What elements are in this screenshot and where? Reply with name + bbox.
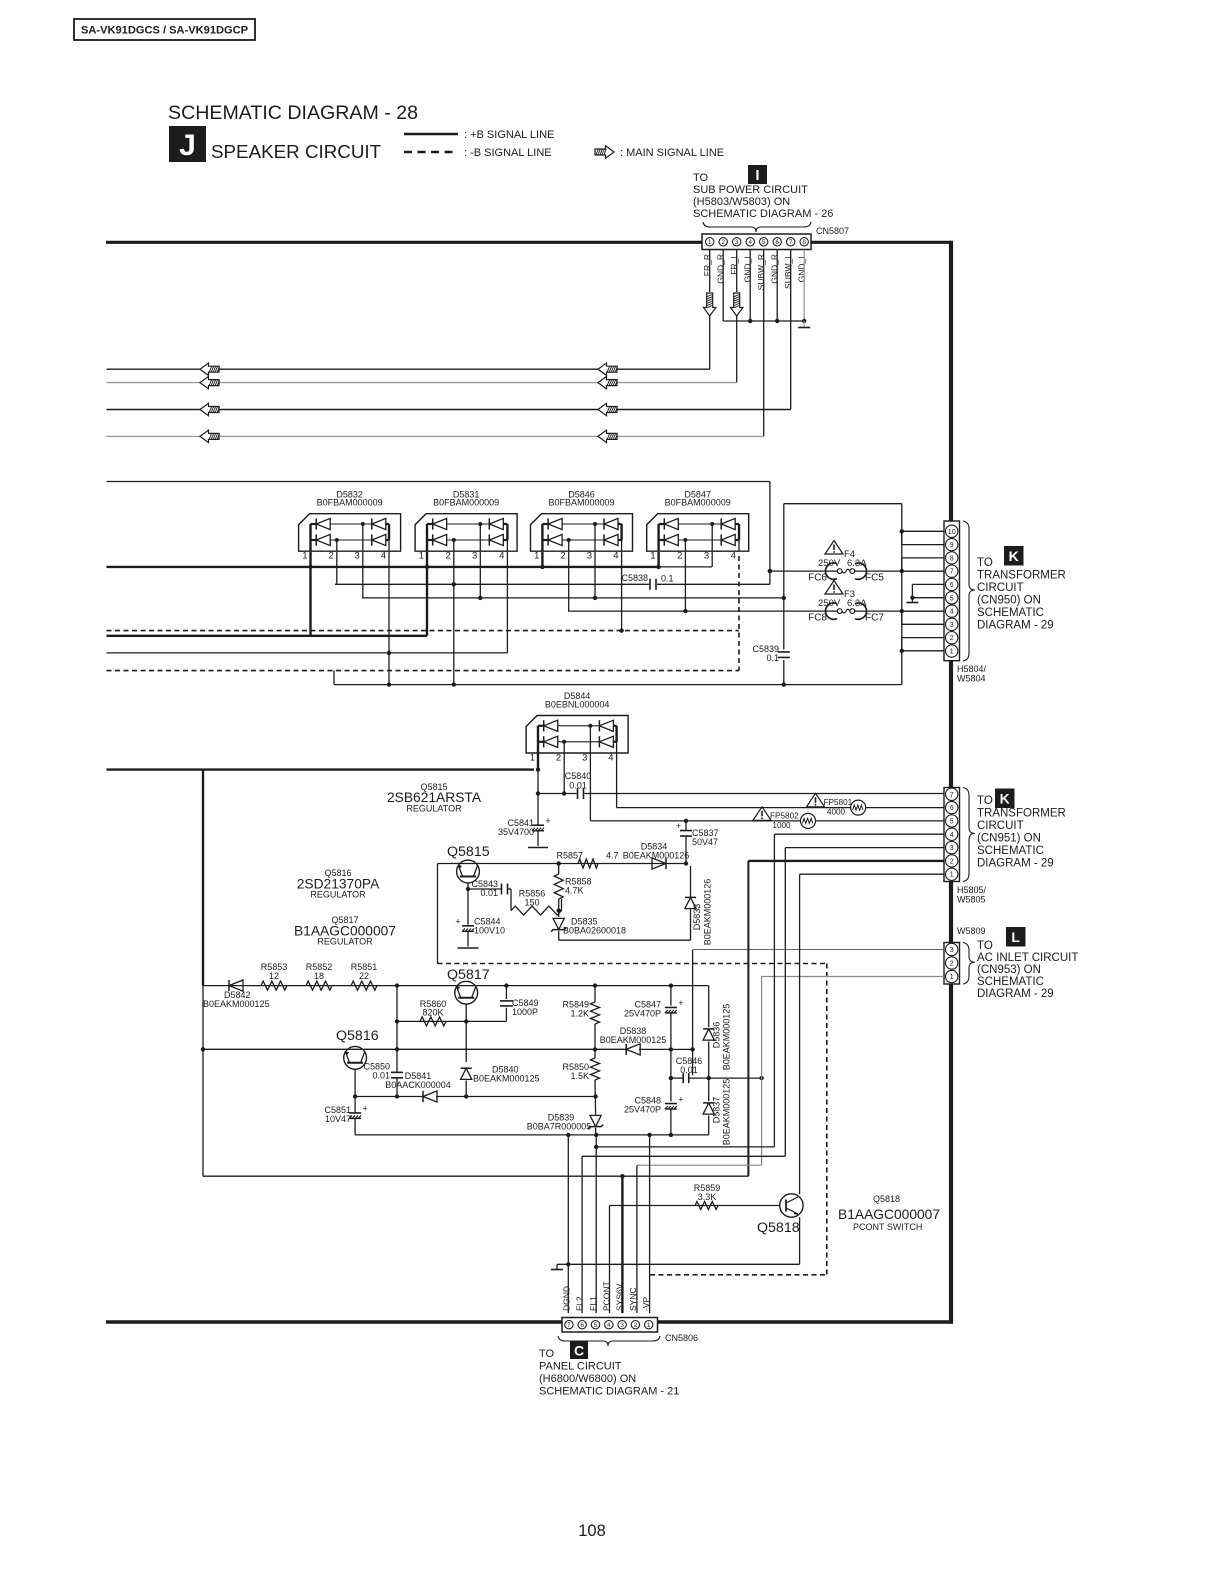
svg-text:Q5818: Q5818 <box>757 1220 800 1236</box>
svg-text:3.3K: 3.3K <box>698 1192 717 1202</box>
svg-text:B0FBAM000009: B0FBAM000009 <box>548 498 614 508</box>
svg-text:4: 4 <box>731 551 736 562</box>
svg-text:25V470P: 25V470P <box>624 1009 661 1019</box>
svg-text:W5809: W5809 <box>957 926 986 936</box>
svg-text:TO: TO <box>539 1348 555 1360</box>
svg-text:2: 2 <box>950 858 954 865</box>
svg-text:D5837: D5837 <box>712 1097 722 1124</box>
svg-text:SCHEMATIC DIAGRAM - 28: SCHEMATIC DIAGRAM - 28 <box>168 102 418 124</box>
svg-text:SPEAKER CIRCUIT: SPEAKER CIRCUIT <box>211 141 382 162</box>
svg-text:2: 2 <box>950 635 954 642</box>
svg-text:4: 4 <box>950 609 954 616</box>
svg-text:1000P: 1000P <box>512 1007 538 1017</box>
svg-text:TRANSFORMER: TRANSFORMER <box>977 808 1066 820</box>
svg-text:7: 7 <box>789 239 793 246</box>
svg-text:SCHEMATIC: SCHEMATIC <box>977 607 1044 619</box>
svg-text:50V47: 50V47 <box>692 837 718 847</box>
svg-text:5: 5 <box>594 1322 598 1329</box>
svg-text:2: 2 <box>677 551 682 562</box>
svg-text:FP5801: FP5801 <box>824 798 853 807</box>
svg-text:PCONT: PCONT <box>601 1281 611 1311</box>
svg-text:TO: TO <box>977 557 993 569</box>
svg-text:B0FBAM000009: B0FBAM000009 <box>433 498 499 508</box>
svg-text:FC5: FC5 <box>865 573 884 584</box>
svg-text:GND_L: GND_L <box>797 254 807 283</box>
svg-text:3: 3 <box>950 845 954 852</box>
svg-text:J: J <box>179 129 196 162</box>
svg-text:W5804: W5804 <box>957 674 986 684</box>
svg-text:FR_R: FR_R <box>702 254 712 276</box>
svg-text:1: 1 <box>647 1322 651 1329</box>
svg-text:Q5818: Q5818 <box>873 1194 900 1204</box>
svg-text:: +B SIGNAL LINE: : +B SIGNAL LINE <box>464 129 554 141</box>
svg-text:SUBW_L: SUBW_L <box>783 254 793 289</box>
svg-text:8: 8 <box>950 555 954 562</box>
svg-text:+: + <box>545 816 550 826</box>
svg-text:SCHEMATIC: SCHEMATIC <box>977 845 1044 857</box>
svg-text:C5840: C5840 <box>565 771 592 781</box>
svg-text:FP5802: FP5802 <box>770 811 799 820</box>
svg-text:35V4700: 35V4700 <box>498 827 534 837</box>
svg-text:6: 6 <box>950 582 954 589</box>
svg-text:0.1: 0.1 <box>766 653 779 663</box>
svg-text:SA-VK91DGCS / SA-VK91DGCP: SA-VK91DGCS / SA-VK91DGCP <box>81 25 249 37</box>
svg-text:GND_R: GND_R <box>770 254 780 284</box>
svg-text:FL2: FL2 <box>575 1296 585 1311</box>
svg-text:2: 2 <box>329 551 334 562</box>
svg-text:B0FBAM000009: B0FBAM000009 <box>317 498 383 508</box>
svg-text:SYNC: SYNC <box>628 1287 638 1311</box>
svg-text:2: 2 <box>950 961 954 968</box>
svg-text:REGULATOR: REGULATOR <box>406 804 462 814</box>
svg-text:4: 4 <box>381 551 386 562</box>
svg-text:: MAIN SIGNAL LINE: : MAIN SIGNAL LINE <box>620 147 724 159</box>
svg-text:TRANSFORMER: TRANSFORMER <box>977 570 1066 582</box>
svg-text:+: + <box>678 1094 683 1104</box>
svg-text:B0EAKM000126: B0EAKM000126 <box>703 879 713 946</box>
svg-text:Q5816: Q5816 <box>336 1028 379 1044</box>
svg-text:7: 7 <box>567 1322 571 1329</box>
svg-text:B0EAKM000125: B0EAKM000125 <box>473 1074 540 1084</box>
svg-text:4000: 4000 <box>827 808 846 817</box>
svg-text:B0EAKM000125: B0EAKM000125 <box>722 1079 732 1146</box>
svg-text:0.01: 0.01 <box>480 888 498 898</box>
svg-text:22: 22 <box>359 971 369 981</box>
svg-text:H5805/: H5805/ <box>957 885 987 895</box>
svg-text:L: L <box>1011 929 1020 945</box>
svg-text:3: 3 <box>472 551 477 562</box>
svg-text:GND_L: GND_L <box>743 254 753 283</box>
svg-text:K: K <box>1009 548 1019 564</box>
svg-text:10: 10 <box>948 529 956 536</box>
svg-text:K: K <box>1000 791 1010 807</box>
svg-text:4: 4 <box>950 832 954 839</box>
svg-text:4.7: 4.7 <box>606 851 619 861</box>
svg-text:18: 18 <box>314 971 324 981</box>
svg-text:DIAGRAM - 29: DIAGRAM - 29 <box>977 858 1054 870</box>
svg-text:DIAGRAM - 29: DIAGRAM - 29 <box>977 988 1054 1000</box>
svg-text:SYS6V: SYS6V <box>615 1283 625 1311</box>
svg-text:C5838: C5838 <box>621 573 648 583</box>
svg-text:B0EAKM000125: B0EAKM000125 <box>722 1004 732 1071</box>
svg-text:R5857: R5857 <box>556 851 583 861</box>
svg-text:4: 4 <box>748 239 752 246</box>
svg-text:4: 4 <box>499 551 504 562</box>
svg-text:1: 1 <box>530 753 535 764</box>
svg-text:D5836: D5836 <box>712 1022 722 1049</box>
svg-text:Q5817: Q5817 <box>447 967 490 983</box>
svg-text:(CN953) ON: (CN953) ON <box>977 964 1041 976</box>
svg-text:1: 1 <box>650 551 655 562</box>
svg-text:6: 6 <box>950 805 954 812</box>
svg-text:150: 150 <box>524 898 539 908</box>
svg-text:(CN950) ON: (CN950) ON <box>977 595 1041 607</box>
svg-text:9: 9 <box>950 542 954 549</box>
svg-text:B0EAKM000126: B0EAKM000126 <box>623 851 690 861</box>
svg-text:GND_R: GND_R <box>716 254 726 284</box>
svg-text:6: 6 <box>775 239 779 246</box>
svg-text:(H6800/W6800) ON: (H6800/W6800) ON <box>539 1373 636 1385</box>
svg-text:SCHEMATIC DIAGRAM - 26: SCHEMATIC DIAGRAM - 26 <box>693 208 833 220</box>
svg-text:(CN951) ON: (CN951) ON <box>977 833 1041 845</box>
svg-text:(H5803/W5803) ON: (H5803/W5803) ON <box>693 196 790 208</box>
svg-text:1: 1 <box>950 974 954 981</box>
svg-text:REGULATOR: REGULATOR <box>317 937 373 947</box>
svg-text:7: 7 <box>950 569 954 576</box>
svg-text:C: C <box>574 1343 584 1359</box>
svg-text:1: 1 <box>950 649 954 656</box>
svg-text:1000: 1000 <box>772 821 791 830</box>
svg-text:+: + <box>455 917 460 927</box>
svg-text:CN5807: CN5807 <box>816 226 849 236</box>
svg-text:SCHEMATIC DIAGRAM - 21: SCHEMATIC DIAGRAM - 21 <box>539 1386 679 1398</box>
svg-text:FC8: FC8 <box>808 613 827 624</box>
svg-text:: -B SIGNAL LINE: : -B SIGNAL LINE <box>464 147 552 159</box>
svg-text:REGULATOR: REGULATOR <box>310 890 366 900</box>
svg-text:100V10: 100V10 <box>474 926 505 936</box>
svg-text:3: 3 <box>355 551 360 562</box>
svg-text:10V47: 10V47 <box>325 1114 351 1124</box>
svg-text:2: 2 <box>446 551 451 562</box>
svg-text:-VP: -VP <box>641 1297 651 1312</box>
svg-text:820K: 820K <box>422 1008 443 1018</box>
svg-text:B0EAKM000125: B0EAKM000125 <box>203 999 270 1009</box>
svg-text:3: 3 <box>620 1322 624 1329</box>
svg-text:DGND: DGND <box>561 1286 571 1311</box>
svg-text:FC7: FC7 <box>865 613 884 624</box>
svg-text:8: 8 <box>802 239 806 246</box>
svg-text:FR_L: FR_L <box>729 254 739 275</box>
svg-text:TO: TO <box>693 172 709 184</box>
svg-text:PCONT SWITCH: PCONT SWITCH <box>853 1222 922 1232</box>
svg-text:4: 4 <box>607 1322 611 1329</box>
svg-text:1.2K: 1.2K <box>570 1009 589 1019</box>
svg-text:4: 4 <box>613 551 618 562</box>
svg-text:2: 2 <box>556 753 561 764</box>
svg-text:B0AACK000004: B0AACK000004 <box>385 1080 451 1090</box>
svg-text:3: 3 <box>582 753 587 764</box>
svg-text:DIAGRAM - 29: DIAGRAM - 29 <box>977 620 1054 632</box>
svg-text:I: I <box>755 167 759 184</box>
svg-text:+: + <box>678 998 683 1008</box>
svg-text:3: 3 <box>950 947 954 954</box>
svg-text:2: 2 <box>721 239 725 246</box>
svg-text:SUBW_R: SUBW_R <box>756 254 766 290</box>
svg-text:B0EAKM000125: B0EAKM000125 <box>600 1035 667 1045</box>
svg-text:1.5K: 1.5K <box>570 1071 589 1081</box>
svg-text:25V470P: 25V470P <box>624 1105 661 1115</box>
svg-text:Q5815: Q5815 <box>447 844 490 860</box>
svg-text:3: 3 <box>587 551 592 562</box>
svg-text:6: 6 <box>580 1322 584 1329</box>
svg-text:CIRCUIT: CIRCUIT <box>977 820 1024 832</box>
svg-text:SCHEMATIC: SCHEMATIC <box>977 976 1044 988</box>
svg-text:PANEL CIRCUIT: PANEL CIRCUIT <box>539 1361 622 1373</box>
svg-text:12: 12 <box>269 971 279 981</box>
svg-text:0.01: 0.01 <box>680 1065 698 1075</box>
svg-text:+: + <box>362 1104 367 1114</box>
svg-text:FL1: FL1 <box>588 1296 598 1311</box>
svg-text:5: 5 <box>950 818 954 825</box>
svg-text:1: 1 <box>950 872 954 879</box>
svg-text:B0BA02600018: B0BA02600018 <box>563 926 626 936</box>
svg-text:0.01: 0.01 <box>569 781 587 791</box>
svg-text:FC6: FC6 <box>808 573 827 584</box>
svg-text:TO: TO <box>977 940 993 952</box>
svg-text:3: 3 <box>735 239 739 246</box>
svg-text:B0FBAM000009: B0FBAM000009 <box>665 498 731 508</box>
svg-text:+: + <box>676 821 681 831</box>
svg-text:7: 7 <box>950 792 954 799</box>
svg-text:3: 3 <box>950 622 954 629</box>
svg-text:1: 1 <box>302 551 307 562</box>
svg-text:108: 108 <box>578 1522 606 1540</box>
svg-text:5: 5 <box>762 239 766 246</box>
svg-text:1: 1 <box>708 239 712 246</box>
svg-text:B0EBNL000004: B0EBNL000004 <box>545 699 610 709</box>
svg-text:1: 1 <box>419 551 424 562</box>
svg-text:SUB POWER CIRCUIT: SUB POWER CIRCUIT <box>693 184 808 196</box>
svg-text:CIRCUIT: CIRCUIT <box>977 582 1024 594</box>
svg-text:W5805: W5805 <box>957 895 986 905</box>
svg-text:AC INLET CIRCUIT: AC INLET CIRCUIT <box>977 952 1078 964</box>
svg-text:H5804/: H5804/ <box>957 664 987 674</box>
svg-text:0.1: 0.1 <box>661 574 674 584</box>
svg-text:B1AAGC000007: B1AAGC000007 <box>838 1207 940 1222</box>
svg-text:2: 2 <box>634 1322 638 1329</box>
svg-text:4.7K: 4.7K <box>565 886 584 896</box>
svg-text:TO: TO <box>977 795 993 807</box>
svg-text:D5833: D5833 <box>692 904 702 931</box>
svg-text:2: 2 <box>560 551 565 562</box>
svg-text:1: 1 <box>534 551 539 562</box>
svg-text:B0BA7R000005: B0BA7R000005 <box>527 1122 592 1132</box>
svg-text:CN5806: CN5806 <box>665 1333 698 1343</box>
svg-text:5: 5 <box>950 595 954 602</box>
svg-text:4: 4 <box>608 753 613 764</box>
svg-text:3: 3 <box>704 551 709 562</box>
